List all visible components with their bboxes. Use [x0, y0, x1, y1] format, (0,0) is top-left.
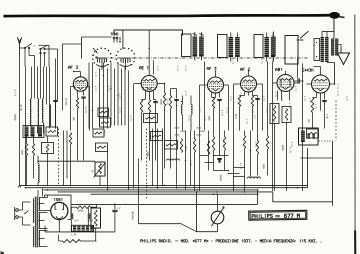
- resistor R7: [140, 100, 142, 113]
- wire antenna feeder (thick top rule): [4, 15, 331, 16]
- wire V1 grid top: [80, 72, 82, 77]
- resistor R14 V3k: [212, 98, 214, 109]
- component cluster mid: [151, 132, 163, 141]
- wire mid verticals: [88, 63, 90, 129]
- transformer IFT3 windings: [265, 37, 269, 57]
- transformer IFT3 screen: [254, 35, 263, 58]
- tube V1 AF3: [73, 77, 87, 91]
- box output filter: [299, 128, 319, 145]
- wire power rails: [96, 204, 98, 208]
- dotted link right: [319, 140, 333, 142]
- capacitor C2: [81, 96, 85, 98]
- page edge line right: [354, 15, 356, 231]
- switch S2 wave band contacts: [40, 48, 41, 49]
- coil L1 aerial: [30, 99, 31, 127]
- wire top loop: [114, 30, 183, 36]
- wire bus D: [58, 192, 333, 206]
- wire IFT1 top: [183, 29, 206, 31]
- wire v x63: [63, 131, 65, 187]
- page corner mark bottom-left: [1, 251, 5, 254]
- switch jack pickup: [300, 32, 308, 39]
- label V6 E443H: [303, 69, 304, 71]
- coil L4 osc: [50, 105, 51, 127]
- wire bus A: [20, 184, 308, 186]
- capacitor C11 elec: [87, 213, 89, 219]
- junction dots buses: [107, 185, 109, 187]
- label V3 AF 3: [207, 67, 209, 70]
- transformer IFT2 screen: [218, 35, 228, 58]
- label cluster under IFT1: [174, 127, 177, 128]
- wire V4 leads: [234, 83, 241, 85]
- capacitor C9: [322, 100, 326, 102]
- wire rect box: [45, 195, 72, 219]
- wire x331 down: [332, 141, 334, 202]
- component cluster under V4: [243, 136, 245, 149]
- dashed shield v2: [146, 129, 148, 199]
- labels V6 vals: [308, 119, 309, 122]
- coil L7 detector: [272, 37, 276, 56]
- label V5 AB 1: [276, 68, 278, 71]
- transformer IFT1 screen: [182, 34, 192, 57]
- wire bus to philipsbox: [257, 190, 259, 205]
- wire meter loop: [196, 192, 198, 232]
- transformer OT primary: [314, 39, 320, 61]
- coil L3: [42, 99, 43, 123]
- wire diag to meter: [139, 223, 182, 225]
- tube V5 AB1 duodiode: [277, 75, 294, 92]
- transformer IFT1 windings: [193, 37, 198, 57]
- plug mains: [16, 209, 19, 212]
- box small R6: [96, 143, 108, 152]
- label V1 AF 3: [69, 66, 71, 69]
- resistor R18 filter: [77, 206, 91, 209]
- box AB1 loads: [270, 104, 279, 124]
- resistor R17 V6: [311, 98, 314, 113]
- resistor R5: [69, 133, 71, 145]
- tube V6 E443H: [312, 75, 330, 93]
- box bandfilter: [285, 36, 298, 65]
- potentiometer P1 volume: [95, 162, 105, 176]
- extra verticals under IF: [185, 131, 187, 190]
- wire bus B: [26, 187, 308, 189]
- wire x77 down: [77, 131, 79, 161]
- wire mid-right verticals: [199, 85, 201, 191]
- wire x169-179 down: [164, 131, 166, 169]
- nameplate PHILIPS mod 677M: [249, 210, 307, 220]
- tube V4 AF2: [241, 76, 257, 92]
- antenna: [17, 37, 19, 56]
- resistor R1: [25, 144, 27, 156]
- wire OT to top blob: [333, 18, 335, 32]
- box R3: [42, 143, 54, 154]
- coil pair osc link: [181, 105, 182, 115]
- label 300ohm: [73, 117, 74, 120]
- blob at right end of top rule: [329, 12, 340, 19]
- speaker LS: [338, 53, 350, 65]
- wire rect output: [58, 220, 60, 232]
- label 1MHz: [104, 129, 105, 135]
- label TONO: [111, 32, 112, 34]
- capacitor C10 elec: [70, 213, 72, 219]
- wire bus E: [91, 193, 259, 195]
- resistor R15: [238, 96, 240, 107]
- label 0,1uF: [85, 107, 87, 113]
- box V6 bias: [307, 129, 319, 138]
- wire V6 leads: [307, 83, 312, 85]
- wire ladder rungs: [214, 155, 229, 157]
- wire switch interconnect: [29, 55, 35, 57]
- transformer IFT2 windings: [229, 37, 234, 57]
- component cluster under V3: [193, 139, 195, 153]
- labels V3V4 values: [209, 116, 210, 120]
- wire left-mid joins: [26, 137, 28, 144]
- wire AB1 bottoms: [274, 124, 276, 192]
- choke L8: [72, 225, 94, 231]
- resistor R19: [63, 240, 81, 243]
- wire V1 pins: [71, 86, 76, 88]
- transformer T1 primary: [33, 199, 34, 223]
- wire V5 leads: [273, 82, 278, 84]
- variable capacitor CV1: [94, 62, 96, 64]
- tube V2 AE1 octode: [141, 76, 157, 92]
- coil L2: [38, 99, 39, 127]
- resistor R8: [148, 100, 150, 113]
- resistor R10: [163, 93, 165, 107]
- dash-dot gang line: [96, 57, 308, 59]
- label V2 AE 1: [140, 66, 142, 69]
- label values left col: [14, 89, 16, 95]
- box R13: [100, 118, 111, 127]
- transformer T1 core: [35, 197, 37, 248]
- resistor R4 cathode: [76, 98, 78, 109]
- label 50000: [161, 99, 162, 104]
- shield dashed vertical: [58, 129, 60, 185]
- wire E443H anode up: [334, 63, 336, 85]
- capacitor C6: [217, 99, 221, 101]
- wire mid-low verticals: [152, 129, 154, 186]
- wire right area: [277, 91, 279, 101]
- resistor R11: [169, 96, 171, 109]
- potentiometer P2 tone: [113, 37, 115, 39]
- wire V3 leads: [200, 84, 208, 86]
- switch mains: [24, 213, 25, 214]
- wire tono feed: [112, 36, 114, 38]
- variable capacitor CV2: [117, 62, 119, 64]
- caption line: [141, 240, 143, 243]
- wire antenna down: [19, 57, 21, 186]
- coil L5 padder block: [25, 127, 29, 137]
- trimmer box: [93, 129, 104, 137]
- wire V2 leads: [134, 83, 142, 85]
- box R12: [98, 108, 109, 117]
- switch S1 wave band contacts: [24, 47, 25, 48]
- capacitor C4: [174, 99, 178, 101]
- box input shield: [82, 36, 112, 38]
- labels rotated right: [290, 147, 292, 152]
- box oscillator trimmers: [46, 127, 58, 136]
- label V7 1561: [53, 198, 56, 200]
- capacitor C8: [297, 78, 299, 83]
- capacitor C3: [153, 101, 157, 103]
- capacitor C1: [53, 100, 57, 102]
- wire bus C: [44, 189, 259, 191]
- tiny value labels: [95, 72, 96, 77]
- wire AE1 bottoms: [141, 131, 143, 161]
- tube V3 AF3: [208, 77, 224, 93]
- tube V7 rectifier: [51, 202, 68, 219]
- resistor R16: [251, 96, 253, 107]
- wire bus left verticals: [25, 67, 27, 186]
- box R9: [144, 114, 158, 123]
- coil L6: [38, 164, 39, 183]
- label V4 AF 2: [241, 68, 243, 71]
- capacitor C7: [255, 98, 259, 100]
- wire T1 taps: [39, 197, 48, 199]
- wire x122 drop: [122, 30, 124, 48]
- meter M1: [211, 211, 224, 224]
- transformer T1 secondary: [39, 198, 40, 211]
- capacitor C12 1uF: [114, 204, 116, 209]
- box bleeder: [91, 208, 101, 228]
- transformer OT secondary: [331, 39, 334, 56]
- resistor R2: [32, 144, 34, 156]
